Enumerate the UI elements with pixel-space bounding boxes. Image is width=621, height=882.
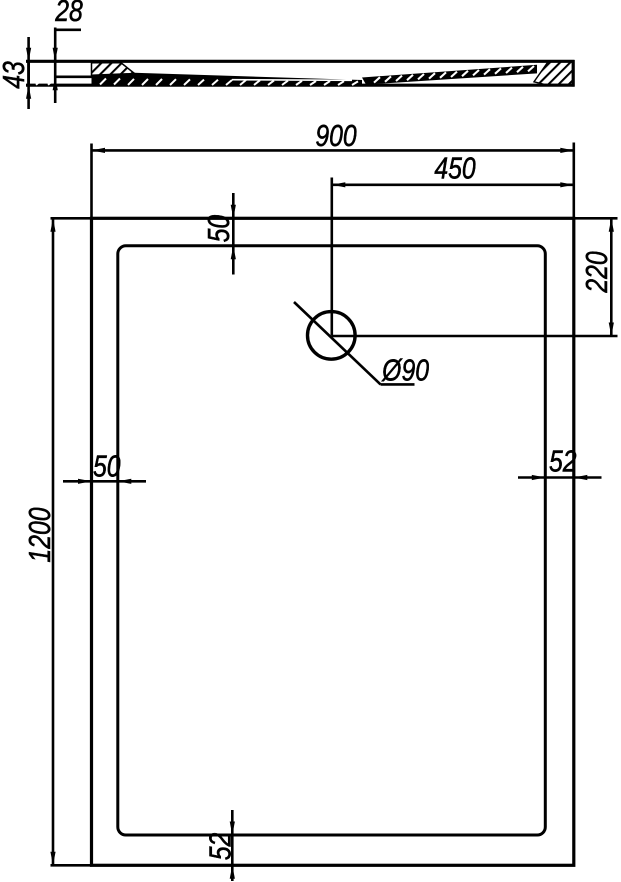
- svg-text:52: 52: [203, 832, 237, 860]
- section drain dip white sliver: [232, 79, 352, 82]
- dimension 52 (right inset): [518, 444, 602, 480]
- dimension 52 (bottom inset): [203, 810, 237, 881]
- dimension 50 (top inset): [202, 193, 236, 275]
- extension line drain center horizontal (to 220 dim): [331, 335, 617, 338]
- section left rim hatched block: [92, 63, 135, 77]
- tray inner rectangle (floor): [118, 246, 546, 835]
- section profile left end wall: [27, 60, 30, 87]
- extension line bottom edge left (to 1200 dim): [51, 864, 92, 867]
- dimension 50 (left inset): [63, 449, 146, 484]
- extension line right edge up (to 900/450 dims): [572, 143, 575, 219]
- svg-text:900: 900: [315, 118, 357, 152]
- section right rim hatched block: [534, 62, 573, 85]
- section floor band white hatch slashes: [36, 79, 358, 86]
- svg-text:50: 50: [93, 449, 121, 483]
- section floor solid band: [36, 73, 362, 87]
- section right rising floor band (dark with white hatch slashes): [362, 65, 537, 85]
- dimension 900 (tray width): [92, 118, 574, 153]
- svg-text:450: 450: [434, 151, 476, 185]
- dimension 28 (rim depth): [53, 0, 84, 103]
- svg-text:Ø90: Ø90: [381, 353, 429, 387]
- dimension 43 (section height): [0, 37, 31, 109]
- drain circle Ø90: [308, 312, 356, 360]
- section rim ledge line: [54, 76, 96, 79]
- extension line top edge left (to 1200 dim): [51, 217, 92, 220]
- svg-text:1200: 1200: [23, 507, 57, 562]
- section profile right end wall: [572, 60, 575, 87]
- extension line drain vertical (450 dim to circle center): [330, 178, 333, 336]
- section profile top edge: [26, 60, 575, 63]
- dimension 450 (drain from right): [332, 151, 574, 188]
- section profile bottom edge: [26, 84, 575, 87]
- extension line left edge up (to 900 dim): [90, 144, 93, 219]
- svg-text:28: 28: [54, 0, 83, 28]
- dimension 220 (drain from top): [580, 218, 614, 336]
- svg-text:52: 52: [549, 444, 577, 478]
- drain leader line: [294, 302, 415, 384]
- tray outer rectangle: [92, 218, 574, 865]
- svg-text:50: 50: [202, 214, 236, 242]
- extension line top edge right (to 220 dim): [574, 217, 618, 220]
- drain diameter label: [381, 353, 429, 387]
- svg-text:220: 220: [580, 251, 614, 294]
- dimension 1200 (tray length): [23, 218, 57, 865]
- svg-text:43: 43: [0, 61, 31, 89]
